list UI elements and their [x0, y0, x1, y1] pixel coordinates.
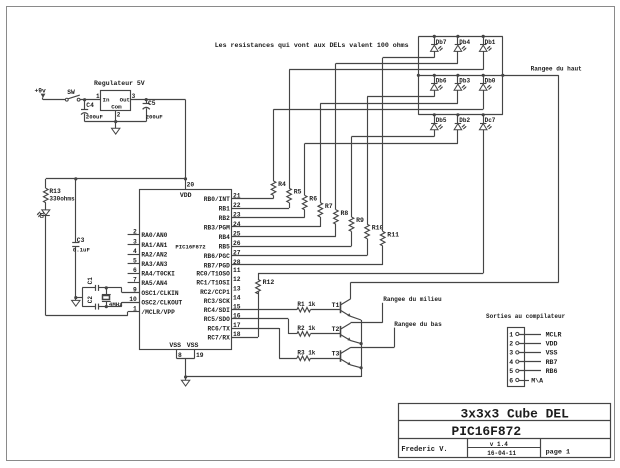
svg-text:Db5: Db5 — [436, 117, 447, 124]
U1 right pin numbers — [233, 192, 241, 338]
svg-text:Db6: Db6 — [436, 78, 447, 85]
svg-text:VSS: VSS — [187, 342, 199, 349]
svg-text:5: 5 — [133, 258, 137, 265]
svg-text:1: 1 — [96, 93, 100, 100]
wire 5V down to VDD — [185, 100, 187, 190]
svg-text:3x3x3 Cube DEL: 3x3x3 Cube DEL — [461, 407, 570, 422]
capacitor C2 — [82, 296, 106, 310]
LED Db6 — [431, 74, 447, 91]
svg-text:page 1: page 1 — [546, 448, 570, 456]
svg-text:8: 8 — [178, 352, 182, 359]
svg-text:200uF: 200uF — [86, 114, 104, 121]
svg-text:/MCLR/VPP: /MCLR/VPP — [141, 309, 175, 316]
wire C1 to OSC1 — [106, 288, 139, 293]
svg-text:3: 3 — [132, 93, 136, 100]
node regulator pin2 junction — [114, 120, 117, 123]
svg-text:RC1/T1OSI: RC1/T1OSI — [196, 280, 230, 287]
crystal X1 4MHz — [102, 288, 123, 308]
wire R12 top to Dc7 — [258, 273, 483, 279]
svg-text:11: 11 — [233, 267, 241, 274]
svg-text:6: 6 — [509, 377, 513, 384]
wire RB5 to R9 — [231, 231, 351, 246]
svg-text:Rangee du milieu: Rangee du milieu — [383, 296, 442, 303]
wire T2 emitter — [350, 340, 361, 343]
svg-text:D1: D1 — [39, 212, 45, 218]
svg-text:Rangee du haut: Rangee du haut — [531, 65, 583, 72]
wire R8 up to column — [335, 63, 337, 209]
svg-text:T2: T2 — [332, 326, 340, 333]
svg-text:C4: C4 — [86, 102, 94, 109]
wire RB1 to R5 — [231, 203, 289, 209]
wire R5 up to column — [289, 70, 291, 188]
svg-text:T3: T3 — [332, 350, 340, 357]
LED D1 — [37, 210, 50, 218]
svg-text:RC0/T1OSO: RC0/T1OSO — [196, 271, 230, 278]
U1 pin 20 label — [187, 182, 195, 189]
svg-text:Rangee du bas: Rangee du bas — [394, 321, 442, 328]
svg-text:18: 18 — [233, 331, 241, 338]
wire D1 down left rail — [45, 216, 47, 316]
svg-text:Sorties au compilateur: Sorties au compilateur — [486, 313, 566, 320]
svg-text:+9v: +9v — [35, 88, 47, 95]
wire RB3 to R7 — [231, 217, 320, 227]
wire rangee du haut to T1 — [351, 75, 559, 282]
svg-text:Dc7: Dc7 — [485, 117, 496, 124]
wire VSS to ground rail — [185, 359, 187, 377]
svg-text:1: 1 — [509, 331, 513, 338]
svg-text:C3: C3 — [77, 237, 85, 244]
svg-text:RA3/AN3: RA3/AN3 — [141, 261, 167, 268]
op-amp U1 PIC16F872 body — [140, 190, 232, 350]
ground oscillator — [72, 298, 80, 307]
svg-text:19: 19 — [196, 352, 204, 359]
svg-text:10: 10 — [129, 296, 137, 303]
switch SW — [65, 89, 80, 101]
wire R9 up to column — [351, 137, 353, 217]
resistor R12 — [256, 279, 275, 294]
svg-text:R13: R13 — [49, 188, 61, 195]
svg-text:RB0/INT: RB0/INT — [204, 196, 230, 203]
svg-text:2: 2 — [117, 112, 121, 119]
svg-text:5: 5 — [509, 368, 513, 375]
svg-text:22: 22 — [233, 202, 241, 209]
svg-text:MCLR: MCLR — [546, 331, 562, 338]
svg-text:RB3/PGM: RB3/PGM — [204, 224, 230, 231]
svg-text:R9: R9 — [356, 217, 364, 224]
svg-text:Les resistances qui vont aux D: Les resistances qui vont aux DELs valent… — [215, 42, 409, 49]
svg-text:RC6/TX: RC6/TX — [208, 325, 231, 332]
LED Db4 — [454, 35, 470, 52]
node rangee du milieu label — [383, 296, 442, 303]
wire Dc7 anode down — [483, 130, 485, 273]
svg-text:R2 1k: R2 1k — [297, 325, 315, 332]
svg-text:R1 1k: R1 1k — [297, 301, 315, 308]
resistor R10 100ohm — [365, 224, 384, 238]
svg-text:RA0/AN0: RA0/AN0 — [141, 232, 167, 239]
LED Db2 — [454, 113, 470, 130]
resistor R11 100ohm — [380, 231, 399, 245]
wire RC7 to R12 — [231, 292, 258, 338]
svg-text:9: 9 — [133, 286, 137, 293]
svg-text:6: 6 — [133, 267, 137, 274]
svg-text:Frederic V.: Frederic V. — [401, 446, 447, 454]
svg-text:RB5: RB5 — [219, 243, 230, 250]
svg-text:R8: R8 — [341, 210, 349, 217]
svg-text:T1: T1 — [332, 302, 340, 309]
node ladder left — [417, 74, 420, 77]
svg-text:Db0: Db0 — [485, 78, 496, 85]
svg-text:R10: R10 — [372, 224, 384, 231]
svg-text:2: 2 — [133, 229, 137, 236]
svg-text:VSS: VSS — [169, 342, 181, 349]
svg-text:RB6/PGC: RB6/PGC — [204, 253, 230, 260]
node C3 tap — [74, 177, 77, 180]
wire T2 collector to rangee du milieu — [351, 303, 383, 323]
svg-text:20: 20 — [187, 182, 195, 189]
svg-text:14: 14 — [233, 294, 241, 301]
capacitor C1 — [82, 277, 106, 291]
LED Db3 — [454, 74, 470, 91]
svg-text:Db4: Db4 — [459, 39, 470, 46]
svg-text:RB6: RB6 — [546, 368, 558, 375]
wire R2 to T2 base — [310, 333, 340, 335]
svg-text:RA5/AN4: RA5/AN4 — [141, 280, 167, 287]
svg-text:R4: R4 — [278, 181, 286, 188]
svg-text:M\A: M\A — [531, 377, 543, 384]
node T3 emitter junction — [360, 366, 363, 369]
svg-text:RB2: RB2 — [219, 215, 230, 222]
svg-text:Db2: Db2 — [459, 117, 470, 124]
svg-text:12: 12 — [233, 276, 241, 283]
wire RC6 to R3 — [231, 328, 297, 359]
node crystal bottom — [105, 305, 108, 308]
resistor R2 1k — [297, 325, 316, 336]
svg-text:0.1uF: 0.1uF — [73, 247, 91, 254]
resistor R8 100ohm — [334, 210, 349, 224]
ground regulator — [112, 128, 120, 134]
wire ground to osc bus — [76, 288, 83, 307]
wire switch to regulator In — [80, 99, 100, 101]
svg-text:R6: R6 — [309, 196, 317, 203]
svg-text:C2: C2 — [87, 296, 94, 304]
wire R1 to T1 base — [310, 309, 340, 311]
svg-text:16-04-11: 16-04-11 — [487, 450, 516, 457]
node rangee du bas label — [394, 321, 442, 328]
node crystal top — [105, 286, 108, 289]
svg-text:PIC16F872: PIC16F872 — [451, 424, 521, 439]
resistor R6 100ohm — [302, 195, 317, 209]
wire RC4 to R1 — [231, 309, 297, 311]
transistor T1 — [332, 299, 351, 317]
svg-text:330ohms: 330ohms — [49, 196, 75, 203]
wire T3 collector to rangee du bas — [351, 328, 395, 348]
LED Dc7 — [479, 113, 495, 130]
wire T3 emitter — [350, 365, 361, 368]
svg-text:13: 13 — [233, 285, 241, 292]
svg-text:VDD: VDD — [546, 341, 558, 348]
wire ground rail — [186, 376, 362, 378]
wire R13 to D1 — [45, 203, 47, 210]
wire Db5 anode to column — [352, 130, 435, 137]
wire R10 up to column — [367, 97, 369, 224]
wire MCLR rail — [46, 312, 140, 316]
resistor R7 100ohm — [318, 203, 333, 217]
svg-text:26: 26 — [233, 240, 241, 247]
resistor R5 100ohm — [287, 188, 302, 202]
svg-text:v 1.4: v 1.4 — [490, 441, 508, 448]
wire VDD rail — [46, 178, 186, 180]
svg-text:3: 3 — [509, 350, 513, 357]
power terminal +9v — [35, 88, 47, 100]
svg-text:RB7: RB7 — [546, 359, 558, 366]
svg-text:7: 7 — [133, 277, 137, 284]
wire Db1 anode to column — [289, 51, 483, 69]
svg-text:2: 2 — [509, 341, 513, 348]
wire RB6 to R10 — [231, 239, 367, 256]
svg-text:RC5/SDO: RC5/SDO — [204, 316, 230, 323]
svg-text:Db3: Db3 — [459, 78, 470, 85]
wire R7 up to column — [320, 103, 322, 202]
wire RC5 to R2 — [231, 319, 297, 334]
svg-text:RC3/SCK: RC3/SCK — [204, 298, 230, 305]
svg-text:R12: R12 — [263, 279, 275, 286]
resistor R1 1k — [297, 301, 316, 312]
svg-text:RA4/T0CKI: RA4/T0CKI — [141, 271, 175, 278]
LED Db7 — [431, 35, 447, 52]
svg-text:17: 17 — [233, 322, 241, 329]
wire C2 to OSC2 — [106, 302, 139, 307]
wire regulator ground bus — [85, 111, 147, 128]
svg-text:VDD: VDD — [180, 192, 192, 199]
wire RB2 to R6 — [231, 210, 305, 218]
wire Db7 anode to column — [383, 51, 435, 57]
wire VDD rail corner down — [45, 179, 47, 188]
capacitor C4 — [81, 100, 103, 122]
resistor R4 100ohm — [271, 181, 286, 195]
wire T1 emitter — [350, 316, 361, 377]
svg-text:200uF: 200uF — [146, 114, 164, 121]
U1 left pin stubs and pin numbers — [128, 229, 140, 313]
svg-text:Regulateur 5V: Regulateur 5V — [94, 80, 145, 87]
node T2 emitter junction — [360, 342, 363, 345]
wire T1 collector — [350, 282, 352, 299]
resistor R3 1k — [297, 350, 316, 361]
svg-text:C1: C1 — [87, 277, 94, 285]
svg-text:Out: Out — [120, 96, 130, 103]
wire middle bus rangee du haut — [418, 75, 502, 77]
wire RB4 to R8 — [231, 224, 336, 236]
wire Db0 anode to column — [274, 90, 484, 109]
svg-text:In: In — [103, 96, 110, 103]
svg-text:R3 1k: R3 1k — [297, 350, 315, 357]
svg-text:OSC1/CLKIN: OSC1/CLKIN — [141, 290, 178, 297]
svg-text:RB7/PGD: RB7/PGD — [204, 262, 230, 269]
svg-text:Db1: Db1 — [485, 39, 496, 46]
wire Db2 anode to column — [305, 130, 458, 144]
ground U1 — [181, 377, 189, 386]
wire RB0 to R4 — [231, 195, 273, 198]
note resistor values — [215, 42, 409, 49]
svg-text:RC4/SDI: RC4/SDI — [204, 307, 230, 314]
resistor R13 — [44, 188, 76, 203]
svg-text:RA1/AN1: RA1/AN1 — [141, 242, 167, 249]
U1 bottom pins 8 and 19 — [177, 349, 204, 359]
svg-text:4: 4 — [509, 359, 513, 366]
capacitor C5 — [143, 100, 164, 122]
svg-text:R11: R11 — [387, 232, 399, 239]
svg-text:RB1: RB1 — [219, 205, 230, 212]
svg-text:Com: Com — [111, 104, 122, 111]
wire Db4 anode to column — [336, 51, 458, 63]
node C4 tap — [83, 98, 86, 101]
wire Db6 anode to column — [367, 90, 434, 97]
svg-text:Db7: Db7 — [436, 39, 447, 46]
wire LED ladder frame — [418, 36, 502, 114]
svg-text:R7: R7 — [325, 203, 333, 210]
wire regulator Out — [131, 99, 186, 101]
wire R11 up to column — [382, 58, 384, 232]
node ladder right — [501, 74, 504, 77]
wire +9v to switch — [43, 99, 65, 101]
svg-text:4: 4 — [133, 248, 137, 255]
title block — [399, 404, 611, 458]
wire R3 to T3 base — [310, 358, 340, 360]
node C5 tap — [145, 98, 148, 101]
wire Db3 anode to column — [320, 90, 458, 103]
node VDD tee — [184, 177, 187, 180]
transistor T2 — [332, 323, 351, 341]
node ground rail junction — [184, 375, 187, 378]
LED Db1 — [479, 35, 495, 52]
LED Db5 — [431, 113, 447, 130]
svg-text:SW: SW — [67, 89, 75, 96]
resistor R9 100ohm — [349, 217, 364, 231]
svg-text:RB4: RB4 — [219, 234, 230, 241]
svg-text:VSS: VSS — [546, 350, 558, 357]
svg-text:RC7/RX: RC7/RX — [208, 334, 231, 341]
svg-text:1: 1 — [133, 306, 137, 313]
LED Db0 — [479, 74, 495, 91]
transistor T3 — [332, 348, 351, 366]
node C3 ground junction — [74, 296, 77, 299]
svg-text:RC2/CCP1: RC2/CCP1 — [200, 289, 230, 296]
svg-text:C5: C5 — [148, 100, 156, 107]
svg-text:3: 3 — [133, 238, 137, 245]
connector J1 sorties au compilateur — [486, 313, 566, 387]
wire RB7 to R11 — [231, 246, 383, 265]
svg-text:OSC2/CLKOUT: OSC2/CLKOUT — [141, 299, 182, 306]
svg-text:PIC16F872: PIC16F872 — [175, 243, 206, 250]
svg-text:R5: R5 — [294, 188, 302, 195]
regulator U2 Regulateur 5V — [94, 80, 145, 119]
wire R6 up to column — [304, 144, 306, 196]
svg-text:RA2/AN2: RA2/AN2 — [141, 251, 167, 258]
capacitor C3 — [72, 179, 90, 298]
node rangee du haut label — [531, 65, 583, 72]
wire R4 up to column — [273, 109, 275, 181]
